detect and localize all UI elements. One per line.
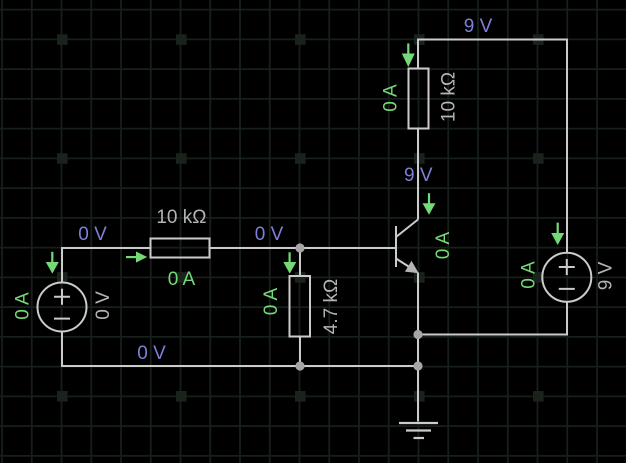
svg-text:4.7 kΩ: 4.7 kΩ bbox=[321, 279, 342, 334]
svg-text:10 kΩ: 10 kΩ bbox=[439, 72, 460, 122]
node emitter bbox=[413, 330, 422, 339]
wire V2 bottom to emitter node bbox=[418, 302, 567, 334]
node ground-left bbox=[295, 361, 304, 370]
wire Q1 emitter down to ground bbox=[417, 273, 419, 422]
svg-text:0 V: 0 V bbox=[137, 343, 166, 364]
svg-text:9 V: 9 V bbox=[595, 261, 616, 290]
svg-text:0 A: 0 A bbox=[381, 84, 402, 112]
wire R2 bottom to ground net bbox=[299, 337, 301, 367]
wire top 9V net bbox=[418, 40, 567, 253]
current arrow V2 bbox=[551, 223, 564, 245]
resistor R2 4.7 kOhm bbox=[290, 276, 311, 337]
voltage source V1 bbox=[38, 283, 87, 332]
current arrow R3 bbox=[402, 43, 415, 67]
svg-text:9 V: 9 V bbox=[464, 16, 493, 37]
svg-text:0 A: 0 A bbox=[519, 261, 540, 289]
current arrow R1 bbox=[126, 252, 147, 263]
svg-text:0 A: 0 A bbox=[13, 292, 34, 320]
node ground-right bbox=[413, 361, 422, 370]
current arrow Q1 collector bbox=[423, 193, 436, 215]
svg-text:10 kΩ: 10 kΩ bbox=[156, 207, 206, 228]
wire V1 bottom to ground net bbox=[62, 332, 418, 366]
resistor R1 10 kOhm bbox=[151, 239, 210, 258]
ground bbox=[399, 423, 438, 438]
current arrow V1 bbox=[46, 252, 59, 274]
transistor Q1 bbox=[396, 220, 418, 271]
wire R3 bottom to Q1 collector bbox=[417, 129, 419, 220]
wire node B to R2 top bbox=[299, 248, 301, 276]
svg-text:9 V: 9 V bbox=[404, 165, 433, 186]
svg-text:0 A: 0 A bbox=[261, 287, 282, 315]
wire R1 right to Q1 base bbox=[210, 247, 396, 249]
voltage source V2 bbox=[542, 253, 591, 302]
svg-text:0 A: 0 A bbox=[168, 269, 196, 290]
resistor R3 10 kOhm bbox=[409, 69, 429, 129]
svg-text:0 V: 0 V bbox=[78, 224, 107, 245]
svg-text:0 V: 0 V bbox=[255, 224, 284, 245]
grid dots bbox=[57, 34, 544, 401]
svg-text:0 A: 0 A bbox=[433, 231, 454, 259]
current arrow R2 bbox=[283, 252, 296, 273]
node B (base) bbox=[295, 243, 304, 252]
wire V1 top to R1 left bbox=[62, 248, 151, 282]
svg-text:0 V: 0 V bbox=[93, 291, 114, 320]
